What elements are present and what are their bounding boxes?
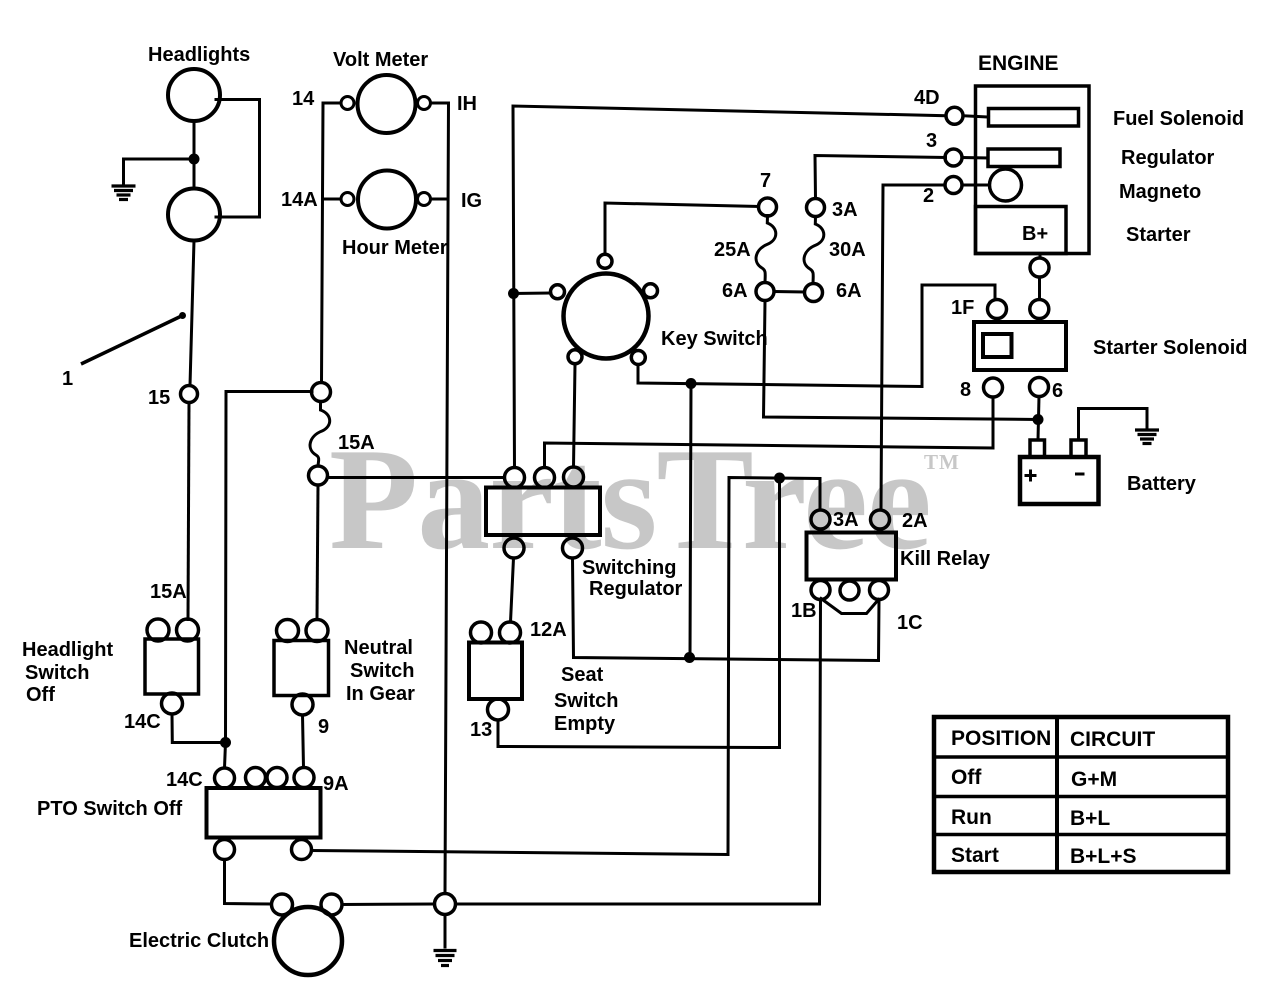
wire 3 stub [962, 156, 988, 160]
wire hour meter IG [431, 198, 449, 201]
node headlight junction [189, 154, 200, 165]
svg-text:1: 1 [62, 368, 73, 390]
pointer line 1 [81, 316, 183, 365]
volt meter body [358, 75, 416, 133]
table [934, 717, 1228, 872]
wire key bottom-right to 1F [638, 285, 995, 387]
node seat 13 / 3A junction [774, 473, 785, 484]
wire 8 to switching regulator mid [545, 397, 994, 468]
svg-text:Headlight: Headlight [22, 639, 113, 661]
battery minus post [1071, 440, 1086, 457]
terminal 3 [945, 149, 962, 166]
wire seat switch 13 [498, 478, 780, 748]
battery minus sign [1075, 473, 1085, 476]
neutral switch top terminals [277, 620, 299, 642]
svg-text:13: 13 [470, 719, 492, 741]
node key bottom-right branch [686, 378, 697, 389]
wire 15 to headlight switch [188, 403, 189, 620]
wire ground node to clutch [342, 903, 435, 907]
battery box [1020, 457, 1099, 504]
engine box [976, 86, 1090, 254]
fuse 15A bottom terminal [309, 466, 328, 485]
svg-text:6: 6 [1052, 380, 1063, 402]
svg-text:3A: 3A [832, 199, 858, 221]
svg-text:14C: 14C [124, 711, 161, 733]
B+ terminal upper [1030, 258, 1049, 277]
headlight switch box [145, 639, 199, 694]
starter solenoid inner square [983, 334, 1012, 357]
svg-text:TM: TM [924, 450, 960, 474]
pointer 1 dot [179, 312, 186, 319]
wire PTO to clutch [225, 860, 272, 905]
svg-text:2A: 2A [902, 510, 928, 532]
terminal 15 [181, 386, 198, 403]
kill relay box [807, 533, 897, 580]
fuse 15A top terminal [312, 383, 331, 402]
svg-text:Switch: Switch [554, 690, 618, 712]
svg-text:PartsTree: PartsTree [329, 418, 931, 580]
wire 1B down [456, 600, 821, 905]
svg-text:1F: 1F [951, 297, 974, 319]
svg-text:4D: 4D [914, 87, 940, 109]
terminal 1F [988, 300, 1007, 319]
switching regulator box [486, 488, 600, 536]
svg-text:Off: Off [951, 766, 982, 789]
fuse 30A squiggle [804, 217, 824, 284]
wire headlight switch 14C [172, 714, 220, 743]
svg-text:IH: IH [457, 93, 477, 115]
svg-text:25A: 25A [714, 239, 751, 261]
wire headlight ground branch [124, 159, 195, 185]
volt meter terminals [341, 97, 354, 110]
svg-text:Starter: Starter [1126, 224, 1191, 246]
seat switch bottom terminal [488, 699, 509, 720]
fuse 15A squiggle [310, 402, 330, 466]
PTO switch box [207, 788, 321, 838]
wire B+ chain [1039, 254, 1042, 259]
wire regulator to seat switch [511, 558, 514, 622]
node key switch left junction [508, 288, 519, 299]
svg-text:15: 15 [148, 387, 170, 409]
key switch terminals [598, 254, 612, 268]
svg-text:1C: 1C [897, 612, 923, 634]
svg-text:B+L: B+L [1070, 807, 1110, 830]
svg-text:Switching: Switching [582, 557, 676, 579]
svg-text:7: 7 [760, 170, 771, 192]
svg-text:15A: 15A [150, 581, 187, 603]
wire 4D stub [963, 116, 989, 117]
svg-text:Battery: Battery [1127, 473, 1197, 495]
node 14C junction [220, 737, 231, 748]
battery plus post [1030, 440, 1045, 457]
wire engine 2 to kill relay 2A [881, 185, 945, 510]
svg-text:Headlights: Headlights [148, 44, 250, 66]
wire 2 stub [962, 184, 990, 187]
wire between headlights [193, 121, 196, 189]
svg-text:6A: 6A [836, 280, 862, 302]
svg-text:3A: 3A [833, 509, 859, 531]
svg-text:14: 14 [292, 88, 315, 110]
kill relay top terminals [811, 510, 830, 529]
svg-text:Fuel Solenoid: Fuel Solenoid [1113, 108, 1244, 130]
regulator bar [988, 149, 1060, 167]
svg-text:Regulator: Regulator [1121, 147, 1215, 169]
ground symbol headlights [112, 186, 136, 200]
magneto circle [990, 169, 1022, 201]
wire 6 to battery [1038, 397, 1039, 441]
electric clutch terminals [272, 894, 293, 915]
headlight lamp top [168, 69, 220, 121]
svg-text:Switch: Switch [350, 660, 414, 682]
node battery plus junction [1033, 414, 1044, 425]
headlight switch bottom terminal [162, 693, 183, 714]
svg-text:B+: B+ [1022, 223, 1048, 245]
wire neutral 9 to PTO 9A [303, 715, 304, 768]
svg-text:Starter Solenoid: Starter Solenoid [1093, 337, 1247, 359]
terminal 2 [945, 177, 962, 194]
svg-text:Volt Meter: Volt Meter [333, 49, 428, 71]
wire ground stub clutch [444, 915, 447, 948]
svg-text:14C: 14C [166, 769, 203, 791]
wire 14C feed from fuse [225, 392, 313, 769]
fuse terminal 7 [759, 198, 777, 216]
svg-text:6A: 6A [722, 280, 748, 302]
svg-text:Hour Meter: Hour Meter [342, 237, 448, 259]
switching regulator top terminals [505, 468, 525, 488]
svg-text:In Gear: In Gear [346, 683, 415, 705]
svg-text:9: 9 [318, 716, 329, 738]
svg-text:Off: Off [26, 684, 55, 706]
svg-text:PTO Switch Off: PTO Switch Off [37, 798, 183, 820]
fuse terminal 6A right [805, 284, 823, 302]
B+ box [976, 207, 1067, 254]
ground node circle [435, 894, 456, 915]
svg-text:2: 2 [923, 185, 934, 207]
headlight lamp bottom [168, 189, 220, 241]
ground symbol clutch [434, 951, 457, 966]
PTO top terminals [215, 768, 235, 788]
svg-text:1B: 1B [791, 600, 817, 622]
neutral switch box [274, 641, 329, 696]
terminal 6 [1030, 378, 1049, 397]
svg-text:12A: 12A [530, 619, 567, 641]
wire key switch left [513, 292, 551, 296]
wire headlight down to 15 [190, 241, 194, 386]
wire 4D line down to regulator [513, 106, 946, 468]
ground symbol battery [1135, 430, 1159, 444]
wire 3A fuse up to engine 3 [815, 156, 946, 199]
battery plus sign [1025, 470, 1037, 482]
svg-text:Start: Start [951, 844, 999, 867]
svg-text:Empty: Empty [554, 713, 616, 735]
svg-text:Key Switch: Key Switch [661, 328, 768, 350]
PTO bottom terminals [215, 840, 235, 860]
wire key switch top to fuse 7 [605, 203, 759, 255]
svg-text:Run: Run [951, 806, 992, 829]
wire 15A down to neutral switch [317, 485, 318, 620]
svg-text:8: 8 [960, 379, 971, 401]
svg-text:Neutral: Neutral [344, 637, 413, 659]
svg-text:15A: 15A [338, 432, 375, 454]
node 1C net junction [684, 652, 695, 663]
svg-text:30A: 30A [829, 239, 866, 261]
headlight switch top terminals [147, 619, 169, 641]
hour meter terminals [341, 193, 354, 206]
svg-text:Regulator: Regulator [589, 578, 683, 600]
svg-text:POSITION: POSITION [951, 727, 1051, 750]
hour meter body [358, 171, 416, 229]
wire IH vertical [431, 103, 449, 894]
wire key bottom-left to regulator [574, 365, 576, 468]
neutral switch bottom terminal [292, 694, 313, 715]
svg-text:B+L+S: B+L+S [1070, 845, 1137, 868]
wire branch to kill relay net [690, 384, 691, 658]
svg-text:IG: IG [461, 190, 482, 212]
B+ terminal lower [1030, 300, 1049, 319]
svg-text:Kill Relay: Kill Relay [900, 548, 991, 570]
wire hour meter 14A [323, 198, 342, 201]
fuse 25A squiggle [756, 216, 776, 283]
svg-text:Seat: Seat [561, 664, 604, 686]
svg-text:9A: 9A [323, 773, 349, 795]
terminal 4D [946, 107, 963, 124]
key switch body [564, 274, 649, 359]
fuse terminal 3A [807, 199, 825, 217]
starter solenoid box [974, 322, 1066, 370]
seat switch top terminals [471, 622, 492, 643]
svg-text:3: 3 [926, 130, 937, 152]
fuel solenoid bar [989, 109, 1079, 127]
wire headlight loop [216, 100, 260, 218]
electric clutch body [274, 907, 342, 975]
kill relay bottom terminals [811, 581, 830, 600]
svg-text:14A: 14A [281, 189, 318, 211]
svg-text:Electric Clutch: Electric Clutch [129, 930, 269, 952]
wire 15A to switching regulator [328, 476, 505, 479]
svg-text:ENGINE: ENGINE [978, 52, 1059, 75]
svg-text:CIRCUIT: CIRCUIT [1070, 728, 1155, 751]
svg-text:Magneto: Magneto [1119, 181, 1201, 203]
seat switch box [469, 643, 522, 700]
svg-text:Switch: Switch [25, 662, 89, 684]
terminal 8 [984, 378, 1003, 397]
wire volt meter 14 [322, 103, 342, 382]
wire battery minus to ground [1079, 409, 1148, 441]
wire kill relay V link [821, 599, 879, 614]
wire regulator to kill relay 1C [573, 558, 880, 661]
wire 6A down to battery plus [764, 301, 1039, 420]
switching regulator bottom terminals [504, 538, 524, 558]
wire fuse 6A bridge [775, 290, 805, 294]
wire 3A net horizontal [312, 478, 821, 855]
fuse terminal 6A left [756, 283, 774, 301]
svg-text:G+M: G+M [1071, 768, 1117, 791]
